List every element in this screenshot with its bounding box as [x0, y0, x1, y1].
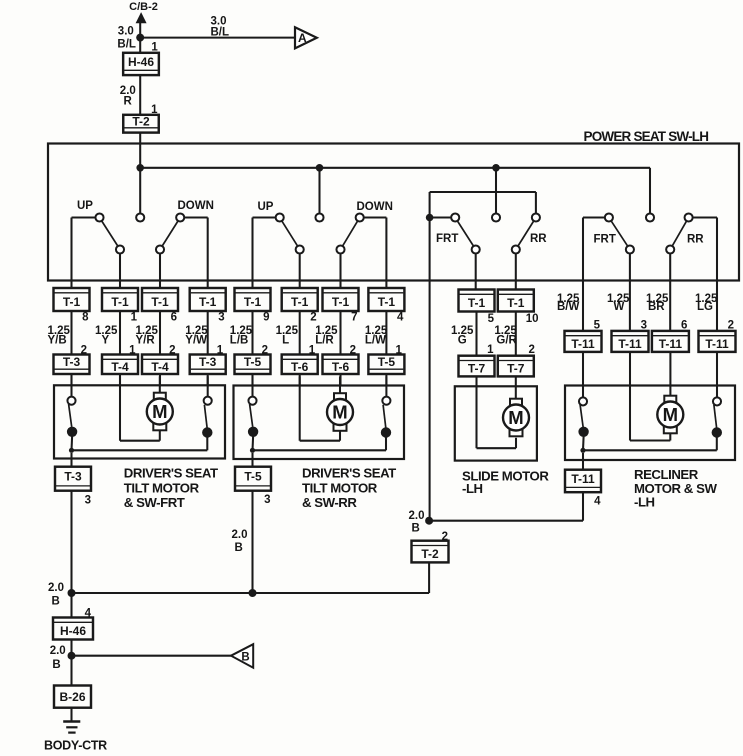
- svg-text:T-1: T-1: [291, 295, 309, 309]
- svg-text:T-1: T-1: [111, 295, 129, 309]
- svg-text:M: M: [508, 407, 523, 428]
- svg-text:T-2: T-2: [421, 547, 439, 561]
- svg-text:2.0: 2.0: [48, 582, 64, 594]
- svg-text:DRIVER'S SEAT: DRIVER'S SEAT: [124, 466, 218, 481]
- svg-text:FRT: FRT: [594, 234, 616, 246]
- svg-text:2.0: 2.0: [232, 529, 248, 541]
- svg-text:T-3: T-3: [64, 470, 82, 484]
- svg-text:TILT MOTOR: TILT MOTOR: [302, 480, 378, 495]
- svg-text:TILT MOTOR: TILT MOTOR: [124, 480, 200, 495]
- svg-text:L/B: L/B: [230, 335, 249, 347]
- svg-text:B/L: B/L: [117, 39, 136, 51]
- svg-text:POWER SEAT SW-LH: POWER SEAT SW-LH: [584, 129, 709, 144]
- svg-text:UP: UP: [258, 201, 274, 213]
- svg-text:L/R: L/R: [315, 335, 334, 347]
- svg-text:RR: RR: [687, 234, 704, 246]
- svg-text:Y/B: Y/B: [48, 335, 67, 347]
- svg-text:B: B: [235, 542, 243, 554]
- svg-text:Y/W: Y/W: [185, 335, 207, 347]
- svg-text:R: R: [124, 96, 133, 108]
- svg-text:& SW-FRT: & SW-FRT: [124, 495, 185, 510]
- svg-text:DOWN: DOWN: [178, 200, 214, 212]
- svg-text:5: 5: [488, 313, 495, 325]
- svg-text:T-1: T-1: [332, 295, 350, 309]
- svg-text:LG: LG: [697, 301, 713, 313]
- svg-text:G: G: [458, 335, 467, 347]
- svg-text:DRIVER'S SEAT: DRIVER'S SEAT: [302, 466, 396, 481]
- svg-text:2.0: 2.0: [409, 510, 425, 522]
- svg-text:4: 4: [397, 312, 404, 324]
- svg-text:T-11: T-11: [659, 337, 683, 351]
- svg-text:4: 4: [594, 496, 601, 508]
- svg-text:T-5: T-5: [244, 355, 262, 369]
- svg-text:B-26: B-26: [59, 690, 85, 704]
- svg-text:BODY-CTR: BODY-CTR: [44, 739, 107, 753]
- svg-text:1: 1: [487, 344, 494, 356]
- svg-text:M: M: [332, 402, 347, 423]
- svg-text:T-7: T-7: [507, 362, 525, 376]
- svg-text:RECLINER: RECLINER: [634, 467, 699, 482]
- svg-text:3: 3: [218, 312, 224, 324]
- svg-text:T-4: T-4: [151, 360, 169, 374]
- svg-text:2.0: 2.0: [50, 645, 66, 657]
- svg-text:B/L: B/L: [211, 27, 230, 39]
- svg-text:T-11: T-11: [618, 337, 642, 351]
- svg-text:M: M: [152, 401, 167, 422]
- svg-text:T-1: T-1: [468, 296, 486, 310]
- svg-text:DOWN: DOWN: [357, 201, 393, 213]
- svg-text:B/W: B/W: [557, 301, 580, 313]
- svg-text:10: 10: [526, 313, 539, 325]
- svg-text:Y: Y: [102, 335, 110, 347]
- svg-text:3: 3: [85, 495, 91, 507]
- svg-text:3: 3: [264, 494, 270, 506]
- svg-text:T-1: T-1: [244, 295, 262, 309]
- svg-text:9: 9: [263, 312, 269, 324]
- svg-text:T-2: T-2: [132, 115, 150, 129]
- svg-text:Y/R: Y/R: [136, 335, 156, 347]
- svg-text:G/R: G/R: [496, 335, 517, 347]
- svg-text:T-6: T-6: [332, 360, 350, 374]
- svg-text:T-3: T-3: [199, 355, 217, 369]
- svg-text:T-7: T-7: [468, 362, 486, 376]
- svg-text:L: L: [282, 335, 289, 347]
- svg-text:6: 6: [171, 312, 177, 324]
- svg-text:A: A: [298, 31, 307, 45]
- svg-text:1: 1: [131, 312, 138, 324]
- svg-text:3.0: 3.0: [211, 15, 227, 27]
- svg-text:T-11: T-11: [571, 337, 595, 351]
- svg-text:T-3: T-3: [63, 355, 81, 369]
- svg-text:& SW-RR: & SW-RR: [302, 495, 357, 510]
- svg-text:2: 2: [528, 344, 534, 356]
- svg-text:B: B: [241, 651, 249, 663]
- svg-text:T-1: T-1: [199, 295, 217, 309]
- svg-text:8: 8: [82, 312, 89, 324]
- svg-text:-LH: -LH: [462, 481, 483, 496]
- svg-text:3.0: 3.0: [118, 26, 134, 38]
- svg-text:B: B: [412, 523, 420, 535]
- svg-text:7: 7: [351, 312, 357, 324]
- svg-text:T-1: T-1: [151, 295, 169, 309]
- svg-text:M: M: [663, 404, 678, 425]
- svg-text:-LH: -LH: [634, 495, 655, 510]
- svg-text:W: W: [614, 301, 625, 313]
- svg-text:L/W: L/W: [365, 335, 386, 347]
- svg-text:BR: BR: [648, 301, 665, 313]
- svg-text:T-4: T-4: [111, 360, 129, 374]
- svg-text:UP: UP: [77, 200, 93, 212]
- svg-text:T-1: T-1: [507, 296, 525, 310]
- svg-text:T-1: T-1: [63, 295, 81, 309]
- svg-text:T-11: T-11: [705, 337, 729, 351]
- svg-text:B: B: [52, 596, 60, 608]
- svg-text:T-5: T-5: [378, 355, 396, 369]
- svg-text:2: 2: [310, 312, 316, 324]
- svg-text:T-5: T-5: [244, 470, 262, 484]
- svg-text:RR: RR: [530, 233, 547, 245]
- svg-text:T-1: T-1: [378, 295, 396, 309]
- svg-text:B: B: [52, 659, 60, 671]
- svg-text:T-11: T-11: [571, 472, 595, 486]
- svg-text:T-6: T-6: [291, 360, 309, 374]
- svg-text:C/B-2: C/B-2: [129, 1, 158, 13]
- svg-text:FRT: FRT: [436, 233, 458, 245]
- svg-text:H-46: H-46: [128, 55, 154, 69]
- svg-text:H-46: H-46: [60, 624, 86, 638]
